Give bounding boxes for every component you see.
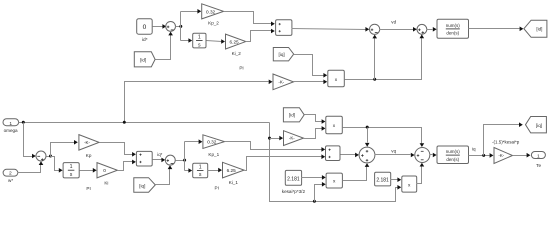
wire gain to product 2 (304, 126, 326, 138)
wire From [id] to sum A minus input (156, 32, 173, 60)
wire Kp_1 to sum block (q-axis) (225, 142, 326, 152)
wire product1 to sum1 and sum2 bottoms (345, 34, 425, 80)
wire transfer fcn to torque gain (469, 153, 494, 158)
svg-text:omega: omega (4, 128, 18, 133)
svg-text:kesai*p*3/2: kesai*p*3/2 (282, 189, 306, 194)
gain -K- (omega Ld) (284, 131, 304, 146)
wire gain to product 1 (294, 80, 328, 85)
svg-text:0.32: 0.32 (206, 9, 216, 14)
wire sum2 to transfer fcn d (427, 27, 437, 32)
gain Ki_2 value 6.25 (226, 34, 246, 56)
svg-text:2: 2 (9, 171, 12, 177)
svg-text:-K-: -K- (289, 136, 295, 141)
svg-text:num(s): num(s) (446, 149, 461, 154)
svg-text:s: s (70, 172, 73, 178)
Goto tag [iq] (526, 117, 547, 133)
svg-text:1: 1 (198, 35, 201, 41)
gain Kp_2 value 0.32 (202, 4, 224, 26)
gain Ki value 0 (97, 163, 117, 186)
node after sum A (176, 25, 183, 28)
svg-text:1: 1 (199, 164, 202, 170)
wire omega branch up to decoupling gain (125, 80, 273, 123)
current sum circle (iq error) (165, 155, 175, 165)
svg-text:id*: id* (142, 37, 148, 43)
wire PI_1 branch vertical (184, 142, 186, 171)
From tag [id] feedback (134, 52, 155, 67)
svg-text:[id]: [id] (140, 57, 146, 62)
svg-text:-K-: -K- (278, 79, 284, 84)
svg-text:s: s (198, 42, 201, 48)
wire plant sum to transfer fcn q (430, 153, 437, 158)
wire product2 to vq sums tops (343, 126, 425, 147)
wire product3 to vq sum bottom (343, 163, 370, 180)
wire omega to gain -K- (omega Ld) (270, 136, 284, 141)
svg-text:s: s (199, 172, 202, 178)
svg-text:0.32: 0.32 (207, 140, 217, 145)
svg-text:[iq]: [iq] (139, 183, 145, 188)
input port 2 w* (3, 169, 18, 183)
sum junction A (id error) (166, 22, 176, 32)
label iq* (157, 152, 162, 157)
sum block ++ (speed PI output) (136, 151, 152, 166)
transfer fcn num(s)/den(s) q-axis (437, 146, 469, 164)
product block 2 (x) (326, 116, 343, 134)
wire iq* to current sum (153, 158, 166, 163)
product block 3 (x) (326, 173, 342, 188)
wire to gain Kp_1 (185, 139, 203, 144)
svg-text:Ki_2: Ki_2 (232, 51, 242, 56)
Goto tag [id] (524, 20, 547, 37)
wire vq to plant sum (375, 153, 415, 158)
label PI (speed) (86, 186, 90, 191)
svg-text:Kp_2: Kp_2 (208, 21, 219, 26)
wire omega down the middle (268, 123, 401, 203)
From tag [iq] feedback (bottom) (134, 178, 156, 193)
sum circle 2 (plant d input) (417, 24, 427, 34)
vq sum circle (big) (359, 147, 375, 163)
From tag [id] (decoupling q) (283, 108, 304, 122)
svg-text:Ki: Ki (104, 181, 108, 186)
svg-text:Te: Te (536, 163, 541, 168)
label PI (d-axis) (239, 66, 243, 71)
svg-text:w*: w* (8, 178, 13, 183)
integrator 1/s (speed) (63, 163, 79, 178)
speed sum circle (36, 151, 46, 161)
constant kesai*p*3/2 value 2.181 (282, 170, 306, 193)
wire integrator to gain Ki_2 (207, 39, 226, 44)
product block 4 (x) (402, 176, 417, 192)
wire product4 to plant sum bottom (417, 163, 425, 184)
wire Ki_1 to sum block (q-axis) (245, 154, 326, 170)
svg-text:PI: PI (86, 186, 90, 191)
label iq (472, 147, 476, 152)
wire Kp_2 to sum block (d-axis) (224, 12, 275, 27)
wire omega down to speed sum (24, 123, 36, 159)
torque gain -K- (494, 148, 513, 164)
svg-text:PI: PI (215, 186, 219, 191)
svg-text:Kp: Kp (86, 153, 92, 158)
wire From [iq] to current sum minus (156, 165, 173, 184)
wire w* to speed sum bottom (18, 161, 44, 172)
output port 1 Te (531, 152, 545, 168)
wire constant to product 4 (391, 177, 402, 182)
wire iq up to Goto [iq] (484, 122, 523, 155)
wire Ki to sum block (speed) (118, 160, 136, 171)
wire PI sum to sum circle 1 (292, 27, 370, 32)
svg-text:Ki_1: Ki_1 (229, 180, 239, 185)
wire PI_2 branch vertical (180, 12, 182, 41)
wire PI sum to vq sum circle (341, 153, 359, 158)
svg-text:[id]: [id] (536, 27, 542, 32)
product block 1 (x) (328, 70, 345, 87)
wire Kp to sum block (speed) (100, 143, 136, 157)
wire From [iq] to product 1 (294, 55, 328, 78)
label vd (391, 19, 396, 24)
svg-text:-K-: -K- (84, 140, 90, 145)
gain Kp_1 value 0.32 (203, 135, 225, 157)
wire integrator to gain Ki_1 (208, 168, 223, 173)
integrator 1/s (q-axis) (193, 163, 208, 178)
svg-text:0: 0 (103, 168, 106, 174)
sum block ++ (q-axis PI output) (326, 146, 341, 161)
wire integrator to gain Ki (80, 168, 97, 173)
wire From [id] to product 2 (305, 115, 326, 124)
svg-text:den(s): den(s) (446, 157, 459, 162)
svg-text:[iq]: [iq] (279, 52, 285, 57)
svg-text:den(s): den(s) (446, 31, 459, 36)
svg-text:2.181: 2.181 (287, 177, 300, 183)
label PI (q-axis) (215, 186, 219, 191)
svg-text:2.181: 2.181 (376, 177, 389, 183)
wire Ki_2 to sum block (d-axis) (246, 29, 275, 42)
plant sum circle (q) (415, 148, 430, 163)
node after current sum (176, 159, 187, 162)
wire dot to integrator 1/s (d-axis) (181, 38, 193, 43)
svg-text:1: 1 (537, 154, 540, 160)
wire omega to product 3 (315, 182, 326, 202)
wire transfer fcn to Goto [id] (469, 27, 524, 32)
svg-text:1: 1 (70, 164, 73, 170)
svg-text:-(1.5)*kesai*p: -(1.5)*kesai*p (492, 140, 520, 145)
svg-text:6.25: 6.25 (227, 168, 237, 173)
sum circle 1 (vd) (370, 24, 380, 34)
wire to gain Kp (51, 140, 78, 157)
wire constant id* to sum A (153, 24, 167, 29)
svg-text:num(s): num(s) (446, 23, 461, 28)
label ~(1.5)*kesai*p (492, 140, 520, 145)
transfer fcn num(s)/den(s) d-axis (437, 19, 469, 38)
label vq (391, 148, 396, 153)
svg-text:iq*: iq* (157, 152, 162, 157)
gain Ki_1 value 6.25 (223, 162, 245, 185)
wire sum1 to sum2 (vd line) (380, 27, 417, 32)
node after speed sum (47, 155, 53, 158)
svg-text:[id]: [id] (289, 113, 295, 118)
wire to integrator 1/s (speed) (51, 157, 63, 173)
gain -K- (omega Lq) (273, 74, 294, 90)
svg-text:PI: PI (239, 66, 243, 71)
gain Kp -K- (79, 135, 99, 158)
svg-text:[iq]: [iq] (536, 123, 542, 128)
From tag [iq] (decoupling d) (273, 48, 293, 61)
svg-text:6.25: 6.25 (230, 39, 240, 44)
svg-text:vq: vq (391, 148, 396, 153)
sum block ++ (d-axis PI output) (276, 20, 292, 36)
integrator 1/s (d-axis) (193, 33, 206, 48)
svg-text:Kp_1: Kp_1 (208, 152, 219, 157)
svg-text:-K-: -K- (498, 153, 504, 158)
svg-text:0: 0 (143, 24, 147, 31)
input port 1 omega (3, 119, 19, 133)
wire to gain Kp_2 (181, 9, 202, 14)
wire omega main line (19, 121, 270, 124)
wire gain to output Te (513, 153, 531, 158)
wire to integrator 1/s (q-axis) (185, 168, 193, 173)
svg-text:1: 1 (9, 121, 12, 127)
svg-text:iq: iq (472, 147, 476, 152)
svg-text:vd: vd (391, 19, 396, 24)
wire constant to product 3 (302, 175, 326, 180)
constant id* value 0 (137, 19, 153, 44)
constant value 2.181 (second) (375, 172, 391, 186)
